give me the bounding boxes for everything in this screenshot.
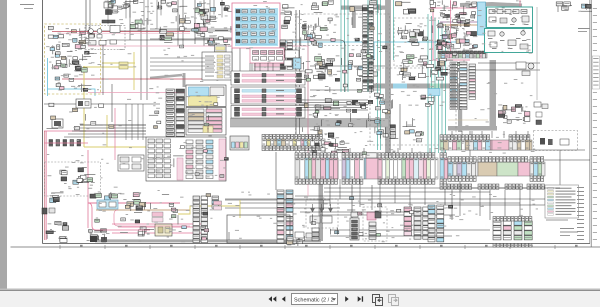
aircon unit box upper (487, 7, 533, 28)
next page button (345, 296, 349, 301)
tan component box (155, 224, 172, 236)
option connector column (369, 222, 376, 239)
pump solenoid group A (398, 24, 423, 46)
pink vertical right of pump box (450, 0, 452, 55)
pump extra (398, 23, 457, 63)
cab connector columns (450, 62, 476, 109)
yellow cell box (215, 45, 227, 68)
starter motor component (104, 2, 113, 15)
junction box small (230, 136, 249, 150)
yellow fuse pair mid left (203, 126, 213, 133)
viewer gutter left (0, 0, 7, 289)
long wires lower center (225, 179, 560, 236)
ground bolt symbols (90, 236, 107, 242)
main harness strip R3 segB (530, 157, 545, 182)
fan motor group right (516, 62, 534, 76)
horn group lower left (50, 193, 64, 203)
mid connectors row (311, 0, 382, 13)
gauge block pink (250, 48, 284, 63)
first page button (269, 296, 277, 301)
last page button (358, 296, 363, 301)
connector box mid (118, 155, 144, 171)
schematic sheet margin frame (11, 0, 600, 249)
main harness strip R1 left (440, 135, 492, 150)
red wire pair top left (52, 32, 190, 34)
controller area text (149, 88, 228, 177)
strip R3 tan cell (478, 162, 497, 176)
fuel sender plug chain (44, 140, 88, 147)
strip R3 pin caps top (478, 157, 528, 162)
harness bus lower vertical (319, 158, 324, 241)
engine sensor group D (304, 96, 340, 117)
harness bus bottom horizontal (95, 240, 321, 243)
relay group top B (130, 20, 145, 31)
main harness strip R1 right (509, 135, 532, 150)
starter extra parts (49, 61, 91, 92)
frame mounted plug (42, 208, 55, 214)
center extra B (302, 101, 381, 155)
battery cable group (46, 221, 69, 242)
strip R3 green cell (497, 162, 518, 176)
top row extra small parts (108, 0, 144, 13)
engine sensor group C (348, 59, 377, 80)
pump valve group (432, 24, 460, 49)
aircon cyan riser (478, 2, 486, 35)
pump sensor group (436, 57, 461, 80)
connector list table right (592, 56, 599, 89)
engine harness dashed frame (296, 14, 390, 160)
lamp group parts (48, 168, 96, 189)
controller pin columns left (166, 89, 185, 140)
wire loop routing top left (103, 40, 345, 95)
ECM pin column center (363, 5, 374, 91)
cab harness strip R2 segD (440, 153, 448, 184)
schematic inner border frame (43, 0, 591, 244)
controller block bands (186, 85, 226, 107)
center extra A (301, 17, 387, 94)
band3 pin row segments (440, 184, 544, 189)
controller lower matrix box (146, 137, 226, 181)
harness bus main vertical (386, 0, 391, 160)
flasher cyan box (97, 200, 118, 209)
wire risers strips to top (305, 131, 528, 153)
harness bus right vertical (490, 60, 497, 128)
antenna note text (578, 28, 590, 32)
small box pair bottom left of center (295, 232, 314, 238)
harness pipe center horizontal (230, 119, 388, 128)
yellow wire bend lower (178, 206, 240, 214)
mini strip pin caps (438, 51, 485, 54)
pink wire curves floor (88, 203, 190, 230)
fuse box group top left (48, 26, 94, 40)
engine room group B (374, 117, 398, 140)
starter circuit group (53, 38, 94, 72)
rear connector columns (414, 207, 430, 239)
teal verticals beside bus (378, 0, 394, 150)
viewer toolbar (0, 290, 600, 307)
harness bus top right segment (460, 4, 522, 6)
cab harness strip R2 segB (342, 153, 366, 184)
yellow dashed option frame (45, 24, 101, 94)
relay dashed box right of R1 (534, 131, 578, 151)
pink cell pair lower left (152, 212, 163, 222)
aircon unit box lower (485, 29, 533, 53)
pink group frame lines F1 (88, 46, 308, 196)
fine print texture (46, 0, 538, 242)
fuse row box under yellow (202, 52, 232, 80)
main harness strip R3 segA (448, 157, 478, 182)
fusible link box (119, 62, 128, 69)
wire bundle top verticals (108, 0, 273, 71)
floor plug group A (87, 229, 107, 242)
wire bundle top left horizontals (150, 29, 232, 39)
right top extra (442, 3, 478, 50)
empty option box (227, 215, 290, 243)
rear lamp columns right (514, 221, 532, 240)
beacon column (350, 212, 359, 240)
junction block right top (439, 0, 477, 27)
cab harness strip R2 segA (295, 153, 338, 184)
wire bundle left mid horizontals (64, 58, 215, 140)
floor extra parts (95, 194, 229, 240)
floor connector column small (212, 196, 219, 208)
top connectors right of bus (396, 0, 452, 14)
relay pair mid (159, 27, 175, 43)
relay boxes beside flasher (123, 199, 145, 211)
floor connector column pair (193, 196, 208, 243)
floor plug group B (138, 224, 154, 237)
lamp dashed box lower left (45, 162, 101, 196)
top mid extra parts (150, 0, 177, 12)
rear lamp columns left (493, 221, 511, 240)
relay stripe box S1 (231, 71, 305, 85)
engine sensor group A (301, 18, 330, 48)
dashed separator line center (300, 45, 388, 47)
speaker unit top right (578, 4, 592, 12)
small box cyan cell group (284, 50, 301, 69)
wire color legend box (545, 185, 579, 218)
engine room dashed frame (370, 68, 456, 145)
bottom edge connector group (287, 237, 305, 246)
cyan box on bus (428, 89, 440, 96)
zone text right margin outer (593, 8, 597, 240)
purple wire pair (440, 22, 486, 25)
relay stripe box S3 (231, 106, 305, 119)
solenoid knot group (422, 61, 448, 75)
switch component left mid (52, 119, 63, 128)
wire trunk verticals (45, 0, 560, 240)
cab harness strip R2 segC (378, 153, 438, 184)
mini strip lower right top (438, 52, 487, 58)
floor harness strip R0 (262, 134, 325, 150)
engine room group C (403, 118, 424, 142)
junction block right mid (436, 28, 476, 49)
relay stripe box S2 (231, 87, 305, 104)
relay parts beside bus right (534, 102, 548, 125)
zone text right margin inner (577, 187, 584, 240)
previous view button (373, 295, 383, 306)
svg-text:Schematic (2 / 2: Schematic (2 / 2 (294, 297, 334, 303)
option dashed box bottom middle (363, 207, 387, 241)
component box upper left mid (76, 99, 91, 108)
cyan wire bend left (48, 89, 96, 96)
legend footnote (546, 220, 568, 221)
monitor panel block frame pink (232, 3, 280, 48)
pump harness dashed frame (394, 18, 464, 66)
rear pink column (404, 207, 412, 236)
engine room knots (421, 95, 434, 106)
work lamp connector column (312, 228, 319, 241)
previous page button (282, 296, 286, 301)
junction bar top left (102, 20, 115, 23)
strip R1 pink wide cell (492, 140, 509, 150)
engine sensor group B (300, 55, 341, 79)
monitor side connectors (280, 5, 294, 29)
revision note top margin (20, 4, 34, 9)
strip R3 pink cell (518, 162, 530, 176)
bus junction knots (352, 100, 373, 113)
gauge pink rows lower (254, 64, 280, 71)
harness bus right horizontal (448, 126, 497, 131)
pump solenoid group B (400, 55, 431, 80)
tail connector columns A (428, 205, 444, 242)
page select dropdown (292, 294, 338, 305)
sheet number note (560, 228, 578, 236)
washer pump group (521, 107, 530, 122)
pink cells mid lower (214, 201, 222, 210)
wire trunk horizontals (44, 8, 590, 233)
left mid extra comps (47, 103, 114, 131)
page bottom shadow (0, 289, 600, 291)
cab rear connector columns (277, 190, 293, 243)
harness bus right branch (372, 84, 462, 133)
floor relay row (90, 192, 140, 200)
radio unit top right (556, 2, 572, 12)
harness bus left feeder (150, 73, 186, 87)
controller row block (186, 108, 226, 136)
harness bus top feeder (341, 6, 389, 29)
rear lamp caps (493, 217, 532, 248)
work lamp dashed box (306, 199, 338, 228)
engine room group A (374, 93, 393, 114)
wiper motor group (498, 105, 522, 124)
bottom center extra (302, 197, 453, 236)
fuse detail top left extra (50, 43, 89, 69)
battery dashed box (85, 26, 125, 50)
engine sensor group E (310, 125, 349, 155)
ignition extra parts (180, 2, 232, 48)
strip R2 pink wide cell (366, 153, 378, 179)
ignition switch cluster (176, 7, 231, 34)
key switch small group (208, 37, 226, 49)
wire bundle center left (300, 100, 368, 110)
pin column monitor right (280, 40, 293, 69)
next view button disabled (389, 295, 399, 306)
